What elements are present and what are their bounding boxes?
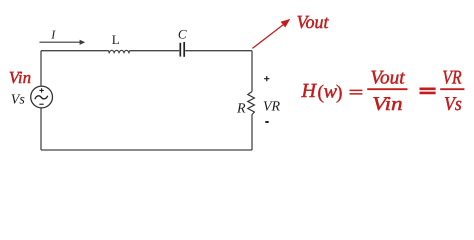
svg-text:Vs: Vs <box>444 94 462 115</box>
capacitor C left plate <box>179 43 181 57</box>
formula fraction2 bar <box>440 88 464 90</box>
Vout arrow (red) <box>252 24 284 48</box>
svg-text:): ) <box>336 82 343 104</box>
source Vs circle <box>31 86 53 108</box>
svg-text:Vout: Vout <box>297 13 330 33</box>
svg-text:C: C <box>178 26 187 41</box>
inductor L coil <box>109 50 130 53</box>
source ~ sign <box>35 96 48 100</box>
source - sign <box>39 103 43 105</box>
svg-text:VR: VR <box>442 68 461 89</box>
wire: right side lower (resistor to bottom corner) <box>251 115 253 151</box>
capacitor C right plate <box>183 42 185 57</box>
formula second equals (bold) <box>420 89 436 93</box>
label + (VR polarity) <box>264 76 269 81</box>
current arrow I <box>40 41 81 43</box>
svg-text:Vout: Vout <box>370 68 405 89</box>
wire: left side upper (source to top corner) <box>40 51 42 86</box>
wire: bottom side <box>41 149 252 151</box>
svg-text:Vs: Vs <box>11 93 26 108</box>
svg-text:Vin: Vin <box>9 68 31 87</box>
wire: top side (inductor to capacitor) <box>129 50 179 52</box>
svg-text:Vin: Vin <box>372 94 403 115</box>
svg-text:L: L <box>112 32 120 47</box>
svg-text:VR: VR <box>263 99 281 114</box>
wire: top side (source corner to inductor) <box>41 50 109 52</box>
formula fraction1 bar <box>367 88 407 90</box>
svg-text:I: I <box>50 28 56 42</box>
svg-text:H: H <box>301 80 318 102</box>
source + sign <box>39 88 43 92</box>
wire: top side (capacitor to right corner) <box>185 50 252 52</box>
resistor R zigzag <box>248 92 255 115</box>
formula first equals <box>350 90 363 94</box>
svg-text:R: R <box>236 101 246 116</box>
wire: left side lower (bottom corner to source) <box>40 108 42 150</box>
wire: right side upper (corner to resistor) <box>251 51 253 92</box>
label - (VR polarity) <box>265 121 268 123</box>
